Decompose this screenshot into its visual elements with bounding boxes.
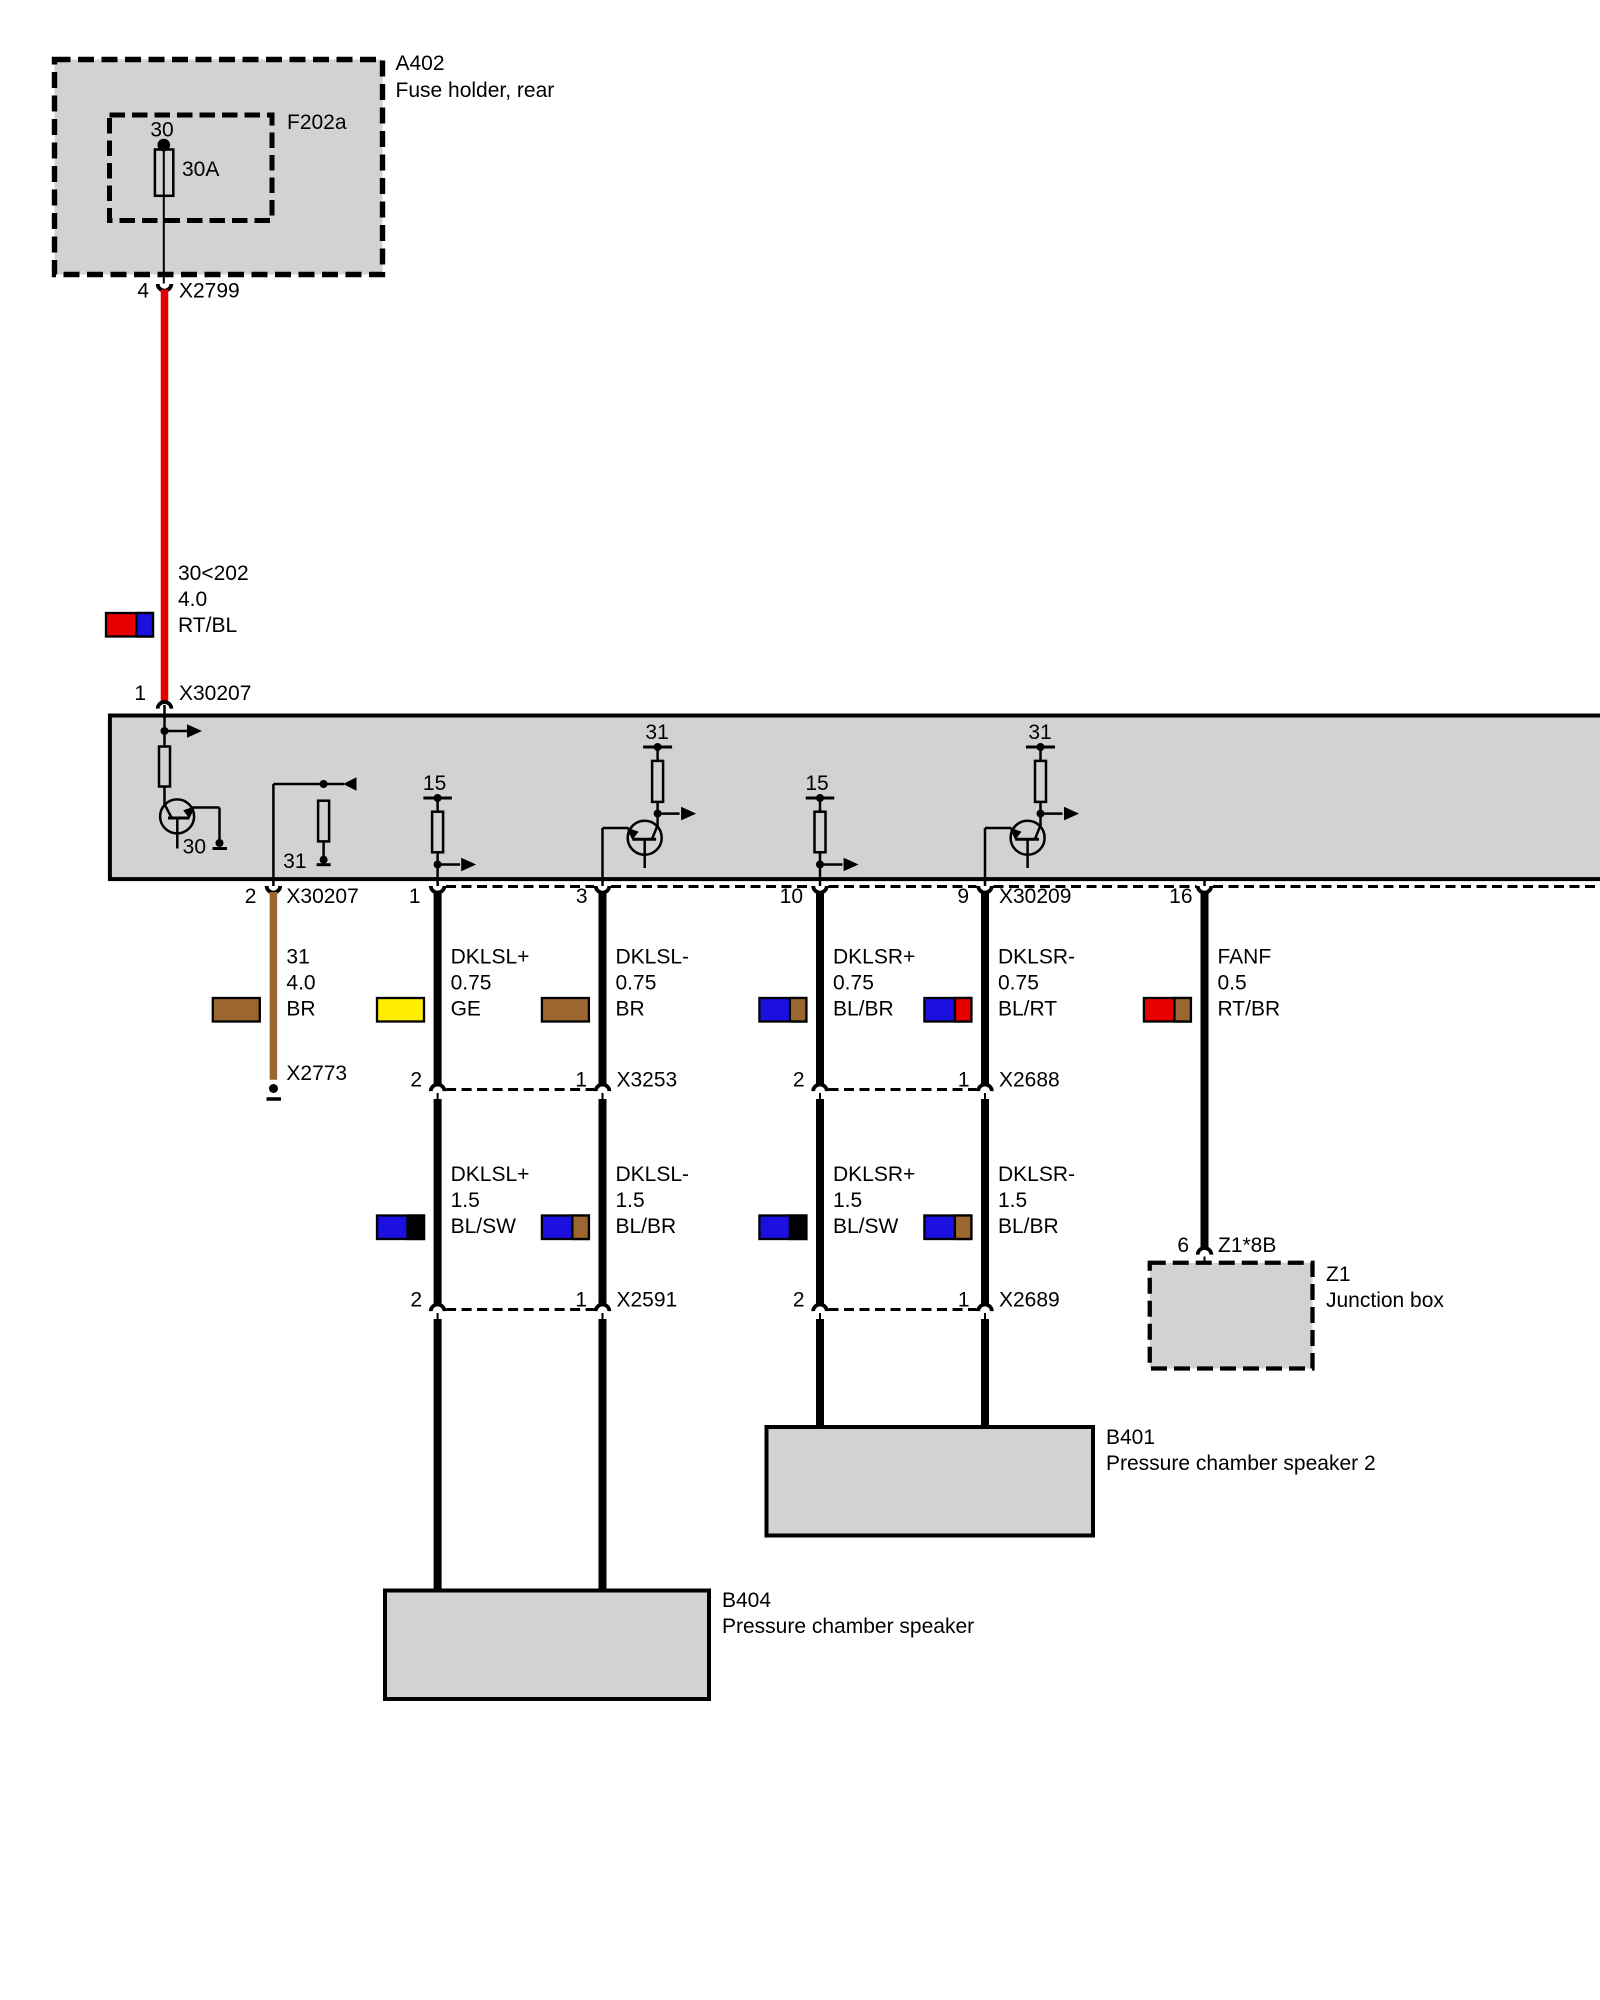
swatch RT/BR <box>1144 998 1191 1022</box>
svg-text:31: 31 <box>645 721 668 744</box>
svg-text:1.5: 1.5 <box>998 1189 1027 1212</box>
svg-text:GE: GE <box>451 998 481 1021</box>
swatch BL/BR <box>759 998 806 1022</box>
speaker B401 <box>767 1427 1094 1536</box>
swatch GE <box>377 998 424 1022</box>
wire DKLSL+ 0.75 GE <box>434 892 442 1085</box>
svg-text:31: 31 <box>1028 721 1051 744</box>
svg-text:10: 10 <box>780 885 803 908</box>
svg-text:DKLSR+: DKLSR+ <box>833 946 915 969</box>
wire DKLSL- 1.5 BL/BR <box>599 1099 607 1305</box>
svg-text:1: 1 <box>134 682 146 705</box>
internal resistor R1 <box>159 747 170 787</box>
internal arrow (out) <box>165 730 189 733</box>
wire to B404 pin 2 <box>434 1319 442 1592</box>
transistor Q1 <box>160 799 194 833</box>
svg-text:X2799: X2799 <box>179 280 240 303</box>
internal wire pin 16 <box>1203 879 1206 886</box>
svg-text:Z1: Z1 <box>1326 1263 1351 1286</box>
wire DKLSR+ 1.5 BL/SW <box>816 1099 824 1305</box>
svg-text:DKLSL-: DKLSL- <box>616 946 690 969</box>
svg-text:BR: BR <box>616 998 645 1021</box>
swatch BL/BR (right pair) <box>924 1216 971 1240</box>
svg-text:A402: A402 <box>396 52 445 75</box>
svg-text:15: 15 <box>805 772 828 795</box>
svg-text:BL/SW: BL/SW <box>833 1215 899 1238</box>
svg-text:X2591: X2591 <box>617 1289 678 1312</box>
svg-text:30: 30 <box>183 836 206 859</box>
svg-text:X30207: X30207 <box>179 682 251 705</box>
svg-text:DKLSR-: DKLSR- <box>998 1163 1075 1186</box>
wire DKLSR+ 0.75 BL/BR <box>816 892 824 1085</box>
svg-text:B404: B404 <box>722 1589 771 1612</box>
svg-text:X30209: X30209 <box>999 885 1071 908</box>
swatch BL/RT <box>924 998 971 1022</box>
svg-text:Z1*8B: Z1*8B <box>1218 1234 1276 1257</box>
svg-text:Pressure chamber speaker: Pressure chamber speaker <box>722 1615 974 1638</box>
svg-text:1: 1 <box>409 885 421 908</box>
svg-text:X2688: X2688 <box>999 1069 1060 1092</box>
svg-text:FANF: FANF <box>1218 946 1272 969</box>
wire DKLSL+ 1.5 BL/SW <box>434 1099 442 1305</box>
svg-text:B401: B401 <box>1106 1426 1155 1449</box>
svg-text:31: 31 <box>286 946 309 969</box>
svg-text:1.5: 1.5 <box>833 1189 862 1212</box>
svg-text:Fuse holder, rear: Fuse holder, rear <box>396 79 555 102</box>
wire 31 4.0 BR (brown) <box>270 892 278 1080</box>
svg-text:DKLSL+: DKLSL+ <box>451 1163 530 1186</box>
svg-text:0.75: 0.75 <box>451 972 492 995</box>
svg-text:BL/SW: BL/SW <box>451 1215 517 1238</box>
internal arrow (in) <box>324 783 344 786</box>
svg-text:4.0: 4.0 <box>286 972 315 995</box>
wire to B401 pin 1 <box>981 1319 989 1429</box>
wire DKLSR- 0.75 BL/RT <box>981 892 989 1085</box>
svg-text:0.75: 0.75 <box>833 972 874 995</box>
svg-text:0.5: 0.5 <box>1218 972 1247 995</box>
wire to B404 pin 1 <box>599 1319 607 1592</box>
svg-text:DKLSR+: DKLSR+ <box>833 1163 915 1186</box>
svg-text:3: 3 <box>576 885 588 908</box>
svg-text:2: 2 <box>410 1069 422 1092</box>
svg-text:15: 15 <box>423 772 446 795</box>
svg-text:X3253: X3253 <box>617 1069 678 1092</box>
emitter wire to terminal 30 <box>193 806 220 809</box>
svg-text:4: 4 <box>137 280 149 303</box>
wire FANF 0.5 RT/BR <box>1201 892 1209 1249</box>
swatch BL/SW <box>377 1216 424 1240</box>
wire from fuse to X2799 <box>163 145 165 284</box>
internal resistor R2 <box>318 801 329 842</box>
svg-text:30: 30 <box>150 119 173 142</box>
fuse holder A402 box <box>55 60 383 275</box>
wire to B401 pin 2 <box>816 1319 824 1429</box>
svg-text:X30207: X30207 <box>286 885 358 908</box>
svg-text:0.75: 0.75 <box>616 972 657 995</box>
svg-text:DKLSR-: DKLSR- <box>998 946 1075 969</box>
fuse carrier F202a box <box>110 115 273 221</box>
wire DKLSR- 1.5 BL/BR <box>981 1099 989 1305</box>
svg-text:1.5: 1.5 <box>451 1189 480 1212</box>
svg-text:0.75: 0.75 <box>998 972 1039 995</box>
junction box Z1 <box>1150 1263 1313 1369</box>
svg-text:DKLSL-: DKLSL- <box>616 1163 690 1186</box>
svg-text:BL/BR: BL/BR <box>616 1215 677 1238</box>
svg-text:1.5: 1.5 <box>616 1189 645 1212</box>
control module (gray band) <box>110 716 1600 880</box>
svg-text:Junction box: Junction box <box>1326 1289 1444 1312</box>
svg-text:2: 2 <box>793 1069 805 1092</box>
svg-text:2: 2 <box>410 1289 422 1312</box>
fuse F202a 30A <box>155 150 173 196</box>
svg-text:2: 2 <box>245 885 257 908</box>
connector strip dashed line X30209 <box>446 885 594 888</box>
svg-text:BL/BR: BL/BR <box>998 1215 1059 1238</box>
svg-text:BL/BR: BL/BR <box>833 998 894 1021</box>
svg-text:31: 31 <box>283 850 306 873</box>
svg-text:X2689: X2689 <box>999 1289 1060 1312</box>
svg-text:4.0: 4.0 <box>178 588 207 611</box>
swatch RT/BL <box>106 613 153 637</box>
swatch BR (pin3) <box>542 998 589 1022</box>
svg-text:DKLSL+: DKLSL+ <box>451 946 530 969</box>
internal circuit pin 1: supply wire <box>163 705 166 747</box>
swatch BR <box>213 998 260 1022</box>
svg-text:6: 6 <box>1177 1234 1189 1257</box>
svg-text:RT/BR: RT/BR <box>1218 998 1281 1021</box>
svg-text:30A: 30A <box>182 158 219 181</box>
svg-text:BL/RT: BL/RT <box>998 998 1057 1021</box>
svg-text:16: 16 <box>1169 885 1192 908</box>
svg-text:Pressure chamber speaker 2: Pressure chamber speaker 2 <box>1106 1452 1376 1475</box>
svg-text:9: 9 <box>957 885 969 908</box>
svg-text:2: 2 <box>793 1289 805 1312</box>
svg-text:30<202: 30<202 <box>178 562 249 585</box>
wire 30<202 4.0 RT/BL (red) <box>161 290 169 703</box>
speaker B404 <box>385 1591 709 1700</box>
swatch BL/SW (right pair) <box>759 1216 806 1240</box>
svg-text:RT/BL: RT/BL <box>178 614 237 637</box>
internal circuit pin 2: wire <box>272 784 275 886</box>
swatch BL/BR (left pair) <box>542 1216 589 1240</box>
wire DKLSL- 0.75 BR <box>599 892 607 1085</box>
svg-text:BR: BR <box>286 998 315 1021</box>
svg-text:F202a: F202a <box>287 111 347 134</box>
svg-text:X2773: X2773 <box>286 1062 347 1085</box>
